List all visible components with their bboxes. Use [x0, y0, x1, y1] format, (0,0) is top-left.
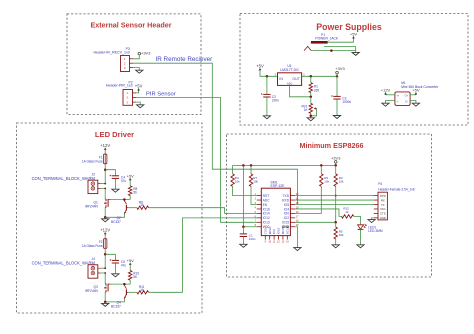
- svg-text:1k: 1k: [345, 210, 349, 214]
- svg-text:IO16: IO16: [263, 207, 270, 211]
- junction fuse/C branch: [104, 253, 107, 256]
- svg-text:ADC: ADC: [263, 198, 271, 202]
- svg-text:Header-PIR_1x3: Header-PIR_1x3: [106, 84, 133, 88]
- wire: fuse to terminal block J2: [104, 164, 106, 185]
- svg-text:+3V3: +3V3: [141, 51, 151, 56]
- svg-text:47u: 47u: [121, 179, 127, 183]
- block frame: External Sensor Header: [67, 14, 201, 115]
- junction IO15 node: [334, 221, 337, 224]
- ground (C2): [263, 116, 270, 119]
- svg-text:220n: 220n: [272, 99, 279, 103]
- junction source/emitter ground node: [104, 216, 107, 219]
- svg-text:O+: O+: [404, 93, 408, 97]
- svg-text:IO15: IO15: [282, 221, 289, 225]
- resistor R1 330: [309, 76, 319, 97]
- wire: J2 pin1 to fuse column: [101, 183, 106, 185]
- svg-text:1k: 1k: [140, 203, 144, 207]
- svg-text:+5V: +5V: [135, 84, 143, 89]
- junction rail/VCC riser: [242, 164, 245, 167]
- IC SM1 ESP-12E: [255, 181, 299, 244]
- svg-text:IO5: IO5: [284, 203, 289, 207]
- potentiometer RV1 1K: [301, 97, 316, 118]
- svg-text:CON_TERMINAL_BLOCK_WARM: CON_TERMINAL_BLOCK_WARM: [32, 260, 96, 265]
- wire: regulator output rail: [302, 75, 337, 77]
- ground (R5): [332, 245, 339, 248]
- wire: IO4 to R12: [295, 209, 341, 216]
- svg-text:Header-IR_RECV_1x3: Header-IR_RECV_1x3: [93, 50, 129, 54]
- svg-text:EN: EN: [263, 203, 268, 207]
- svg-text:10k: 10k: [324, 180, 329, 184]
- resistor R5 10k (IO15 pulldown): [334, 222, 344, 245]
- svg-text:56: 56: [133, 275, 137, 279]
- wire: J4 pin1 to fuse column: [101, 267, 106, 269]
- transistor Q4 BC337 (NPN): [111, 284, 129, 308]
- resistor R10 56: [129, 270, 140, 284]
- svg-text:+12V: +12V: [381, 88, 391, 93]
- ground (C1): [240, 244, 247, 247]
- capacitor C4 47u: [105, 170, 126, 190]
- svg-text:1A Glass Fuse: 1A Glass Fuse: [82, 244, 103, 248]
- connector P1 POWER_JACK: [304, 33, 339, 51]
- wire: IO5 / IR net to header pin3: [295, 204, 374, 206]
- svg-text:+12V: +12V: [100, 228, 110, 233]
- ground (C4): [112, 189, 119, 192]
- svg-text:IR Remote Reciever: IR Remote Reciever: [156, 56, 213, 63]
- wire: sleeve down to ground: [355, 51, 357, 53]
- wire: R12 to LED1: [354, 216, 361, 224]
- svg-text:DTR: DTR: [380, 194, 386, 198]
- junction output rail / C3: [336, 75, 339, 78]
- wire: fuse to terminal block J4: [104, 248, 106, 269]
- ground (ESP GND): [294, 248, 301, 251]
- resistor R8 56: [129, 186, 138, 200]
- svg-text:RST: RST: [263, 194, 270, 198]
- svg-text:VCC: VCC: [380, 207, 386, 211]
- svg-text:+3V3: +3V3: [335, 66, 345, 71]
- wire: VCC riser (rail to VCC pin): [243, 165, 256, 226]
- power +12V (F1 top): [100, 143, 110, 154]
- junction fuse/C branch: [104, 168, 107, 171]
- ground (driver): [102, 302, 109, 307]
- ground (jack): [352, 52, 359, 55]
- svg-text:IN: IN: [279, 77, 283, 81]
- wire: +5V input rail: [260, 71, 278, 77]
- svg-text:CTS: CTS: [380, 212, 386, 216]
- terminal block J2 CON_TERMINAL_BLOCK_WARM: [32, 173, 101, 194]
- wire: PIR Sensor net (P2 pin2 to ESP IO13): [136, 98, 257, 223]
- svg-text:47u: 47u: [121, 264, 127, 268]
- svg-text:IRFZ44N: IRFZ44N: [85, 204, 99, 208]
- power +3V3 (ESP rail): [331, 156, 341, 166]
- svg-text:IO13: IO13: [263, 221, 270, 225]
- wire: Q4 emitter to ground node: [105, 299, 124, 302]
- block frame: LED Driver: [17, 123, 203, 313]
- svg-text:10k: 10k: [253, 180, 258, 184]
- wire: IO15 to R3/R5 node: [295, 221, 336, 223]
- junction RV1 wiper/bottom: [310, 115, 313, 118]
- wire: ADJ pin to R1/RV1 node: [290, 85, 311, 96]
- ground (LED1): [357, 245, 364, 248]
- ground (P2 pin3): [136, 102, 144, 108]
- svg-text:MISO: MISO: [268, 226, 272, 234]
- capacitor C2 220n: [261, 76, 279, 116]
- wire: ESP GND pin to ground: [295, 227, 297, 248]
- connector P2 Header-PIR_1x3: [106, 80, 136, 105]
- wire: R9 to ESP IO14: [149, 208, 257, 214]
- wire: TXD to header pin1: [295, 195, 374, 197]
- svg-text:CS0: CS0: [263, 228, 267, 234]
- svg-text:IO12: IO12: [263, 216, 270, 220]
- junction VCC/C1: [242, 226, 245, 229]
- svg-text:BC337: BC337: [111, 305, 121, 309]
- svg-text:LM317T-DG: LM317T-DG: [280, 68, 299, 72]
- svg-text:10k: 10k: [339, 233, 344, 237]
- power +3V3 (P3 pin1): [133, 51, 151, 59]
- svg-text:TXD: TXD: [282, 194, 289, 198]
- svg-text:IO14: IO14: [263, 212, 270, 216]
- svg-text:I-: I-: [397, 99, 399, 103]
- svg-text:100n: 100n: [249, 237, 256, 241]
- connector P4 Header-Female-2.54_1x6: [374, 182, 415, 220]
- resistor R9 1k (base): [129, 200, 149, 209]
- resistor R7 10k (EN pullup): [249, 165, 258, 204]
- fuse F2 1A Glass Fuse: [82, 239, 107, 249]
- svg-text:IO9: IO9: [272, 229, 276, 234]
- ground (header): [368, 220, 375, 223]
- terminal block J4 CON_TERMINAL_BLOCK_WARM: [32, 257, 101, 278]
- transistor Q3 IRFZ44N (N-MOSFET): [85, 284, 111, 294]
- wire: gate node: [111, 283, 131, 285]
- power +5V (regulator input): [259, 68, 261, 71]
- svg-text:+5V: +5V: [256, 63, 264, 68]
- wire: MOSFET source to ground node: [104, 207, 106, 217]
- svg-text:+5V: +5V: [350, 32, 358, 37]
- junction ADJ node: [310, 96, 313, 99]
- wire: Q2 emitter to ground node: [105, 214, 124, 217]
- wire: J2 pin2 to MOSFET drain: [101, 188, 106, 199]
- junction source/emitter ground node: [104, 301, 107, 304]
- wire: +3V3 rail over ESP: [233, 164, 336, 166]
- svg-text:I+: I+: [397, 93, 400, 97]
- junction gate node / BJT collector: [123, 283, 126, 286]
- ground (driver): [102, 217, 109, 222]
- svg-text:1k: 1k: [140, 288, 144, 292]
- svg-text:OUT: OUT: [292, 77, 300, 81]
- svg-text:ESP-12E: ESP-12E: [271, 184, 286, 188]
- wire: IR Remote Receiver net (P3 pin2 to header P4): [133, 63, 297, 204]
- svg-text:56: 56: [133, 191, 137, 195]
- svg-text:LED-3MM: LED-3MM: [368, 229, 383, 233]
- svg-text:RX: RX: [381, 198, 385, 202]
- capacitor C1 100n: [240, 227, 256, 245]
- wire: RXD to header pin2: [295, 199, 374, 201]
- svg-text:MOSI: MOSI: [281, 226, 285, 234]
- svg-text:1000u: 1000u: [342, 100, 351, 104]
- junction jack sleeve: [330, 49, 333, 52]
- block frame: Power Supplies: [240, 14, 468, 126]
- svg-text:+5V: +5V: [127, 173, 135, 178]
- ground (buck output): [410, 101, 419, 107]
- svg-text:PIR Sensor: PIR Sensor: [146, 91, 176, 97]
- junction rail/R6: [320, 164, 323, 167]
- transistor Q1 IRFZ44N (N-MOSFET): [85, 199, 111, 209]
- svg-text:External Sensor Header: External Sensor Header: [90, 20, 171, 29]
- resistor R11 1k (base): [129, 285, 149, 294]
- power +12V (buck input): [381, 88, 395, 95]
- svg-text:RXD: RXD: [282, 198, 290, 202]
- module M1 Mini 360 Buck Converter: [395, 81, 439, 106]
- wire: MOSFET source to ground node: [104, 292, 106, 302]
- power +5V (R10 top): [127, 258, 135, 270]
- connector P3 Header-IR_RECV_1x3: [93, 47, 133, 72]
- resistor R12 1k: [342, 206, 354, 218]
- capacitor C3 1000u: [331, 76, 351, 115]
- regulator U1 LM317T-DG: [274, 64, 305, 86]
- power +5V (P2 pin1): [135, 84, 143, 93]
- ground (buck input): [382, 101, 395, 107]
- ground (P3 pin3): [133, 68, 143, 74]
- svg-text:P4: P4: [378, 182, 382, 186]
- svg-text:+5V: +5V: [412, 88, 420, 93]
- power +3V3 (regulator output): [335, 66, 345, 76]
- ground (C3): [333, 116, 340, 119]
- svg-text:O-: O-: [405, 99, 408, 103]
- svg-text:1A Glass Fuse: 1A Glass Fuse: [82, 159, 103, 163]
- junction input rail / C2: [266, 75, 269, 78]
- junction rail/R7: [250, 164, 253, 167]
- capacitor C5 47u: [105, 254, 126, 273]
- resistor R3 10k (IO2 pullup): [334, 165, 344, 222]
- svg-text:ADJ: ADJ: [287, 82, 293, 86]
- svg-text:Mini 360 Buck Converter: Mini 360 Buck Converter: [401, 85, 439, 89]
- svg-text:IO0: IO0: [284, 212, 289, 216]
- svg-text:Minimum ESP8266: Minimum ESP8266: [300, 141, 364, 150]
- wire: J4 pin2 to MOSFET drain: [101, 273, 106, 284]
- svg-text:IO2: IO2: [284, 216, 289, 220]
- power +5V (buck output): [410, 88, 420, 95]
- svg-text:+12V: +12V: [100, 143, 110, 148]
- svg-text:+3V3: +3V3: [331, 156, 341, 161]
- svg-text:BC337: BC337: [111, 220, 121, 224]
- wire: jack sleeve to ground: [311, 47, 356, 51]
- fuse F1 1A Glass Fuse: [82, 154, 107, 164]
- svg-text:Header-Female-2.54_1x6: Header-Female-2.54_1x6: [378, 187, 415, 191]
- svg-text:SCLK: SCLK: [285, 226, 289, 234]
- junction rail/R3: [334, 164, 337, 167]
- svg-text:LED Driver: LED Driver: [95, 130, 134, 139]
- svg-text:IRFZ44N: IRFZ44N: [85, 289, 99, 293]
- block frame: Minimum ESP8266: [227, 134, 432, 277]
- junction output rail / R1: [310, 75, 313, 78]
- svg-text:+5V: +5V: [127, 258, 135, 263]
- resistor R4 10k (RST pullup): [231, 165, 257, 195]
- svg-text:330: 330: [314, 88, 320, 92]
- resistor R6 10k (IO0 pullup): [295, 165, 330, 213]
- wire: jack tip to +5V: [328, 39, 354, 42]
- wire: gate node: [111, 199, 131, 201]
- svg-text:GND: GND: [380, 216, 386, 220]
- transistor Q2 BC337 (NPN): [111, 200, 129, 224]
- wire: jack switch contact: [324, 46, 356, 48]
- wire: header GND pin to ground: [372, 218, 374, 220]
- svg-text:IO4: IO4: [284, 207, 289, 211]
- ground (C5): [112, 274, 119, 277]
- ground (RV1): [307, 118, 314, 121]
- LED LED1 LED-3MM: [358, 224, 383, 245]
- power +12V (F2 top): [100, 228, 110, 239]
- power +5V (jack): [353, 36, 355, 39]
- svg-text:POWER_JACK: POWER_JACK: [315, 36, 339, 40]
- svg-text:10k: 10k: [339, 180, 344, 184]
- svg-text:TX: TX: [381, 203, 385, 207]
- junction R3 col crossing TXD: [335, 195, 337, 197]
- power +5V (R8 top): [127, 173, 135, 185]
- svg-text:IO10: IO10: [277, 227, 281, 234]
- svg-text:10k: 10k: [235, 180, 240, 184]
- wire: R11 to ESP IO12: [149, 218, 257, 292]
- svg-text:CON_TERMINAL_BLOCK_WARM: CON_TERMINAL_BLOCK_WARM: [32, 176, 96, 181]
- junction gate node / BJT collector: [123, 198, 126, 201]
